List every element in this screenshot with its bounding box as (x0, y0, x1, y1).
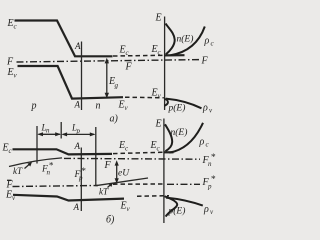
svg-text:ρ: ρ (204, 36, 210, 47)
Ec dashed continuation (b) (113, 152, 164, 153)
svg-text:A: A (74, 41, 81, 51)
svg-text:E: E (155, 119, 162, 130)
svg-text:*: * (211, 175, 216, 185)
conduction band edge Ec (b) (13, 149, 113, 154)
svg-text:n(E): n(E) (171, 127, 188, 138)
kT left pointer arrow (25, 163, 31, 168)
svg-text:A: A (74, 141, 81, 151)
svg-text:ρ: ρ (202, 103, 208, 114)
Ln left tick (36, 126, 38, 164)
svg-text:E: E (155, 13, 162, 24)
hole distribution p(E) (b) (165, 196, 178, 216)
quasi Fermi level Fp* tilted segment (b) (96, 178, 149, 186)
density of states curve rho_c (a) (171, 27, 205, 56)
junction section line A-A (a) (81, 42, 83, 111)
Ec level segment right of axis (b) (164, 151, 174, 153)
conduction band edge Ec p-side (a) (15, 21, 113, 57)
svg-text:p(E): p(E) (168, 206, 186, 217)
svg-text:kT: kT (99, 187, 109, 197)
svg-text:F: F (6, 57, 14, 68)
electron distribution n(E) (b) (165, 124, 172, 151)
svg-text:*: * (211, 153, 216, 163)
Fp* dashes (b) (113, 183, 164, 185)
Ev dashed continuation (b) (137, 195, 169, 198)
svg-text:а): а) (110, 114, 119, 125)
svg-text:p(E): p(E) (168, 103, 186, 114)
quasi Fermi level Fn* decay in p-region (b) (9, 158, 62, 167)
Ec level segment right of axis (a) (164, 54, 185, 56)
valence band edge Ev (b) (13, 195, 124, 201)
Ln dimension arrow (39, 133, 60, 135)
svg-text:A: A (73, 202, 80, 212)
svg-text:A: A (74, 100, 81, 110)
svg-text:F: F (201, 56, 209, 67)
Fp* dash-dot right of axis (b) (167, 183, 200, 185)
Fermi level F dash-dot (a) (17, 60, 201, 62)
Ln right tick (60, 122, 62, 139)
svg-text:n(E): n(E) (177, 34, 194, 45)
Ev dashed continuation (a) (125, 96, 164, 99)
Ec dashed continuation (a) (113, 54, 164, 57)
Lp right tick (95, 127, 97, 186)
svg-text:eU: eU (118, 169, 130, 179)
eU arrow (b) (116, 163, 118, 182)
band gap arrow Eg (a) (106, 61, 108, 97)
svg-text:*: * (81, 166, 86, 176)
svg-text:p: p (31, 101, 37, 112)
density of states curve rho_v (a) (166, 99, 202, 109)
svg-text:ρ: ρ (199, 137, 205, 148)
hole distribution p(E) (a) (164, 99, 168, 106)
svg-text:ρ: ρ (203, 204, 209, 215)
svg-text:*: * (49, 161, 54, 171)
svg-text:kT: kT (13, 166, 23, 176)
density of states curve rho_v (b) (166, 198, 203, 206)
svg-text:F: F (104, 160, 112, 171)
svg-text:p: p (76, 127, 81, 135)
electron distribution n(E) (a) (166, 24, 175, 55)
svg-text:F: F (125, 62, 133, 73)
valence band edge Ev p-side (a) (18, 66, 124, 99)
quasi Fermi level Fn* dash-dot (b) (64, 157, 200, 160)
svg-text:б): б) (106, 215, 115, 226)
svg-text:g: g (115, 82, 119, 90)
svg-text:n: n (46, 127, 50, 135)
energy axis E (a) (164, 17, 166, 111)
Lp dimension arrow (63, 133, 94, 135)
density of states curve rho_c (b) (170, 123, 204, 153)
Fermi level F dash-dot left (b) (13, 186, 99, 187)
kT right pointer arrow (108, 184, 112, 188)
svg-text:n: n (96, 101, 101, 112)
energy axis E (b) (163, 119, 165, 224)
junction section line A-A (b) (80, 148, 82, 212)
